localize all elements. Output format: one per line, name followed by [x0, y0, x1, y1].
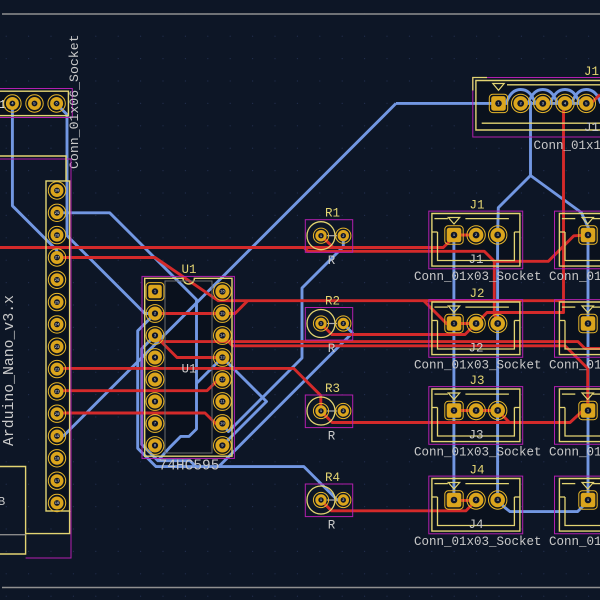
connector J3 (right, clipped) courtyard: [555, 387, 600, 445]
svg-text:25: 25: [55, 301, 60, 305]
svg-text:Conn_01x03_Socket Conn_01: Conn_01x03_Socket Conn_01: [414, 359, 600, 373]
wire rail to J1 pads 1-2 (F.Cu): [0, 235, 476, 248]
svg-text:J3: J3: [468, 429, 483, 443]
nano socket pad 23: [48, 338, 65, 355]
top-right J1 pad 1: [489, 94, 507, 112]
wire U1 pad2 pair (F.Cu): [155, 312, 222, 315]
Arduino Nano courtyard: [0, 159, 71, 558]
connector J2 silkscreen: [432, 302, 520, 355]
svg-text:Conn_01x1: Conn_01x1: [534, 139, 600, 153]
J1 pad 3: [489, 226, 507, 244]
wire weave over top connector pads (B.Cu): [396, 90, 600, 104]
wire J2 pad1-2 link (F.Cu): [455, 322, 477, 325]
connector J1 courtyard: [429, 211, 523, 269]
connector J3 silkscreen: [559, 389, 600, 442]
svg-text:J2: J2: [468, 342, 483, 356]
wire R1 pad1 stub (F.Cu): [321, 236, 333, 248]
R3 pad 2: [336, 403, 351, 418]
svg-text:R3: R3: [325, 382, 340, 396]
connector J1 pin1 triangle: [448, 218, 459, 225]
R4 pad 1: [313, 492, 328, 507]
silkscreen corner bracket: [473, 78, 487, 91]
wire nano pad2 through chip interior (B.Cu): [57, 213, 197, 461]
top-right J1 pad 4: [556, 94, 574, 112]
nano socket pad 22: [48, 360, 65, 377]
pad 5 of top-left connector: [26, 95, 43, 112]
connector J1 top-right pin1 triangle: [493, 84, 504, 91]
svg-text:J4: J4: [469, 464, 484, 478]
svg-text:23: 23: [55, 346, 60, 350]
J3 pad 2: [467, 401, 485, 419]
wire top socket pad1 to nano pad4 (B.Cu): [12, 104, 57, 258]
U1 pad 8: [146, 437, 164, 455]
resistor R1 fab link: [327, 235, 337, 237]
USB fab line: [0, 534, 26, 536]
top-right J1 pad 2: [512, 94, 530, 112]
svg-text:29: 29: [55, 212, 60, 216]
svg-text:12: 12: [220, 379, 225, 383]
nano socket pad 28: [48, 226, 65, 243]
J4 pad 3: [489, 491, 507, 509]
nano socket pad 20: [48, 405, 65, 422]
nano socket pad 19: [48, 427, 65, 444]
svg-text:28: 28: [55, 234, 60, 238]
connector J4 silkscreen: [559, 479, 600, 532]
U1 pad 12: [214, 371, 232, 389]
svg-text:18: 18: [55, 458, 60, 462]
svg-text:R2: R2: [325, 295, 340, 309]
svg-text:21: 21: [55, 391, 60, 395]
wire nano to U1 pad7 (F.Cu): [57, 413, 222, 424]
box interior fills: [46, 181, 70, 511]
connector J2 pin1 triangle: [448, 306, 459, 313]
svg-text:Conn_01x03_Socket Conn_01: Conn_01x03_Socket Conn_01: [414, 535, 600, 549]
J4 pad 1: [579, 491, 597, 509]
svg-text:J3: J3: [469, 374, 484, 388]
connector J3 pin1 triangle: [582, 393, 593, 400]
top-right J1 pad 5: [577, 94, 595, 112]
U1 pad 13: [214, 349, 232, 367]
wire top J1 pad4 down to J2 pad2 (F.Cu): [476, 103, 564, 323]
wire outer loop U1 pad2 to R4 pad2 (B.Cu): [138, 314, 343, 501]
svg-text:U1: U1: [181, 363, 196, 377]
connector J4 courtyard: [429, 476, 523, 534]
svg-text:R: R: [328, 342, 336, 356]
resistor R1 courtyard: [305, 220, 352, 253]
connector J1 pin1 triangle: [582, 218, 593, 225]
svg-text:1: 1: [0, 98, 6, 112]
wire fork to right J1 pad1 (B.Cu): [531, 176, 589, 236]
svg-text:R1: R1: [325, 207, 340, 221]
U1 fab outline: [165, 281, 212, 453]
connector J1 Conn_01x06_Socket silkscreen: [0, 91, 68, 115]
wire U1 pad3 long rail (F.Cu): [155, 336, 600, 349]
connector J2 silkscreen: [559, 302, 600, 355]
wire top socket pad3 to U1 pad2 (B.Cu): [57, 104, 155, 314]
nano socket pad 16: [48, 494, 65, 511]
connector J1 Conn_01x06_Socket courtyard: [0, 89, 72, 118]
svg-text:B: B: [0, 495, 5, 509]
U1 pad 14: [214, 327, 232, 345]
wire U1 pad2 branch to rail (F.Cu): [222, 301, 247, 314]
sheet frame bottom line: [2, 587, 600, 589]
wire R1 pad2 to U1 pad7 (B.Cu): [222, 235, 343, 432]
J3 pad 1: [579, 401, 597, 419]
svg-text:Arduino_Nano_v3.x: Arduino_Nano_v3.x: [2, 295, 18, 446]
svg-text:J1: J1: [584, 65, 599, 79]
svg-text:J1: J1: [469, 199, 484, 213]
U1 pad 16: [214, 283, 232, 301]
svg-text:R: R: [328, 430, 336, 444]
svg-text:R4: R4: [325, 471, 340, 485]
J2 pad 1: [579, 314, 597, 332]
svg-text:16: 16: [55, 502, 60, 506]
connector J1 silkscreen: [432, 214, 520, 267]
sheet frame top line: [2, 13, 600, 15]
connector J4 pin1 triangle: [582, 483, 593, 490]
svg-text:22: 22: [55, 368, 60, 372]
wire nano to U1 pad5 (F.Cu): [57, 380, 222, 391]
wire U1 pad3R rail to right J3 (F.Cu): [222, 336, 588, 411]
IC socket U1 courtyard: [142, 276, 234, 458]
nano socket pad 25: [48, 293, 65, 310]
wire U1 pad4 elbow to pad8 (B.Cu): [222, 358, 266, 446]
Arduino Nano body silkscreen: [0, 156, 66, 181]
R3 pad 1: [313, 403, 328, 418]
U1 pad 10: [214, 415, 232, 433]
wire U1 pad4 stub to interior trace (B.Cu): [197, 358, 223, 384]
connector J1 top-right silkscreen: [476, 81, 600, 131]
wire J1 pad1-pad2 link (F.Cu): [454, 234, 476, 237]
connector J4 silkscreen: [432, 479, 520, 532]
svg-text:26: 26: [55, 279, 60, 283]
svg-text:Conn_01x03_Socket Conn_01: Conn_01x03_Socket Conn_01: [414, 270, 600, 284]
nano socket pad 27: [48, 249, 65, 266]
pad 4 of top-left connector: [4, 95, 21, 112]
connector J2 pin1 triangle: [582, 306, 593, 313]
wire rail2 to right J1 pad1 (F.Cu): [304, 235, 588, 261]
wire inner loop U1 pad3 (B.Cu): [142, 336, 196, 467]
wire J4 pad3 to right J4 pad1 (B.Cu): [498, 500, 588, 512]
U1 pad 2: [146, 305, 164, 323]
U1 pad 4: [146, 349, 164, 367]
svg-text:J4: J4: [468, 518, 483, 532]
wire top right red stub (F.Cu): [586, 95, 600, 104]
U1 pad 7: [146, 415, 164, 433]
wire nano pad rail y=301 (F.Cu): [57, 258, 564, 301]
wire U1 pad3 to pad4 (F.Cu): [155, 336, 222, 358]
wire R2 to J2 pad2 (F.Cu): [321, 324, 476, 335]
connector J1 (right, clipped) courtyard: [555, 211, 600, 269]
connector J2 courtyard: [429, 300, 523, 358]
resistor R1 silkscreen circle: [307, 222, 335, 250]
svg-text:19: 19: [55, 435, 60, 439]
svg-text:Conn_01x03_Socket Conn_01: Conn_01x03_Socket Conn_01: [414, 446, 600, 460]
svg-text:13: 13: [220, 357, 225, 361]
connector J4 (right, clipped) courtyard: [555, 476, 600, 534]
wire branch to J2 pad3 (F.Cu): [494, 261, 497, 323]
svg-text:J1: J1: [468, 253, 483, 267]
connector J3 courtyard: [429, 387, 523, 445]
connector J1 silkscreen: [559, 214, 600, 267]
svg-text:R: R: [328, 254, 336, 268]
svg-text:74HC595: 74HC595: [159, 459, 220, 475]
nano socket pad 17: [48, 472, 65, 489]
svg-text:U1: U1: [181, 263, 196, 277]
wire R2 pad2 diagonal to loop (B.Cu): [219, 324, 353, 467]
wire J4 pad1-2 link (F.Cu): [454, 499, 476, 502]
svg-text:16: 16: [220, 291, 225, 295]
connector J2 (right, clipped) courtyard: [555, 300, 600, 358]
Arduino Nano pin strip silkscreen box: [46, 181, 70, 511]
wire J3 pads link (F.Cu): [454, 411, 510, 423]
resistor R3 silkscreen circle: [307, 397, 335, 425]
top-right J1 pad 3: [534, 94, 552, 112]
U1 pad 5: [146, 371, 164, 389]
wire fork to J1 pad3 (B.Cu): [498, 101, 531, 235]
svg-text:Conn_01x06_Socket: Conn_01x06_Socket: [67, 34, 82, 169]
U1 pad 6: [146, 393, 164, 411]
resistor R2 courtyard: [305, 308, 352, 341]
nano socket pad 29: [48, 204, 65, 221]
U1 pad 1: [146, 283, 164, 301]
svg-text:20: 20: [55, 413, 60, 417]
J4 pad 1: [445, 491, 463, 509]
resistor R2 fab link: [327, 323, 337, 325]
nano socket pad 26: [48, 271, 65, 288]
U1 pad 15: [214, 305, 232, 323]
nano socket pad 18: [48, 450, 65, 467]
svg-text:17: 17: [55, 480, 60, 484]
svg-text:11: 11: [220, 401, 225, 405]
U1 pad 9: [214, 437, 232, 455]
nano socket pad 30: [48, 182, 65, 199]
J2 pad 2: [467, 314, 485, 332]
wire nano to R3 pad1 (F.Cu): [57, 368, 321, 411]
wire right column pad1 chain (B.Cu): [587, 235, 590, 500]
resistor R4 silkscreen circle: [307, 486, 335, 514]
U1 pad 3: [146, 327, 164, 345]
resistor R2 silkscreen circle: [307, 310, 335, 338]
nano socket pad 21: [48, 383, 65, 400]
svg-text:J2: J2: [469, 287, 484, 301]
J4 pad 2: [467, 491, 485, 509]
svg-text:15: 15: [220, 313, 225, 317]
resistor R3 fab link: [327, 410, 337, 412]
svg-text:14: 14: [220, 335, 225, 339]
U1 pad 11: [214, 393, 232, 411]
nano socket pad 24: [48, 316, 65, 333]
resistor R3 courtyard: [305, 395, 352, 428]
connector J3 pin1 triangle: [448, 393, 459, 400]
wire J1-J4 pad3 chain (B.Cu): [496, 235, 499, 500]
wire rail dive to J2 pad1 (F.Cu): [424, 301, 455, 324]
J3 pad 1: [445, 401, 463, 419]
pad 6 of top-left connector: [48, 95, 65, 112]
J2 pad 1: [445, 314, 463, 332]
connector J3 silkscreen: [432, 389, 520, 442]
svg-text:J1: J1: [584, 121, 599, 135]
connector J1 top-right courtyard: [473, 78, 600, 138]
svg-text:10: 10: [220, 423, 225, 427]
J1 pad 1: [445, 226, 463, 244]
wire R3 to right J3 (F.Cu): [321, 411, 588, 423]
wire long diagonal J1 pad1 to nano pad (B.Cu): [57, 103, 396, 436]
resistor R4 fab link: [327, 499, 337, 501]
J1 pad 1: [579, 226, 597, 244]
connector J4 pin1 triangle: [448, 483, 459, 490]
R2 pad 2: [336, 316, 351, 331]
J3 pad 3: [489, 401, 507, 419]
USB connector silkscreen: [0, 467, 26, 555]
R4 pad 2: [336, 492, 351, 507]
svg-text:24: 24: [55, 324, 60, 328]
R2 pad 1: [313, 316, 328, 331]
R1 pad 1: [313, 228, 328, 243]
svg-text:30: 30: [55, 190, 60, 194]
svg-text:27: 27: [55, 257, 60, 261]
wire J1-J4 pad1 chain (B.Cu): [452, 235, 455, 500]
IC socket U1 silkscreen with notch: [145, 278, 232, 456]
J1 pad 2: [467, 226, 485, 244]
J2 pad 3: [489, 314, 507, 332]
resistor R4 courtyard: [305, 484, 352, 517]
svg-text:R: R: [328, 519, 336, 533]
R1 pad 2: [336, 228, 351, 243]
wire R4 to J4 pad2 (F.Cu): [321, 500, 476, 511]
